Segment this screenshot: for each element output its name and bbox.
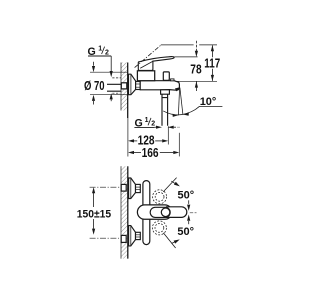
wall face line (top view) (127, 166, 129, 258)
svg-text:2: 2 (151, 121, 155, 128)
leader to top 50deg label (163, 178, 176, 192)
wall hatch band (top view) (121, 166, 128, 258)
dimension 150+-15 (92, 187, 95, 235)
label G 1/2 bottom (135, 117, 156, 129)
svg-text:Ø 70: Ø 70 (84, 79, 105, 93)
phantom knob circle top (50deg swing) (153, 190, 167, 204)
shower outlet nut below body (161, 90, 170, 94)
supply pipe behind wall (107, 84, 121, 91)
svg-text:10°: 10° (200, 96, 217, 108)
svg-text:150±15: 150±15 (77, 208, 111, 220)
lever swing arc arrows at lever tip (188, 200, 190, 204)
svg-text:78: 78 (190, 62, 201, 77)
arrow left toward pipe from right side (168, 126, 174, 129)
extension line x=179.3 (178, 133, 180, 157)
dimension 78 (195, 41, 198, 91)
svg-text:166: 166 (142, 145, 159, 160)
wall back line (top view) (120, 166, 122, 258)
leader to bottom 50deg label (163, 233, 175, 248)
pipe square in wall (121, 83, 127, 89)
escutcheon cone (side view) (129, 74, 136, 95)
dimension dia 70 (90, 62, 128, 105)
extension line x=168.3 (167, 126, 169, 144)
arrowhead at spout tip (175, 87, 180, 91)
escutcheon cone top union (129, 178, 136, 199)
phantom knob circle bottom (50deg swing) (152, 221, 166, 235)
escutcheon base rim bottom union (130, 226, 132, 246)
svg-text:2: 2 (105, 49, 109, 56)
svg-text:50°: 50° (177, 226, 194, 238)
10-degree ray A (spout axis) (178, 88, 179, 116)
dimension 128 (128, 139, 168, 142)
wall hatch band (side view) (121, 63, 128, 111)
arrow right toward pipe (155, 126, 157, 128)
slot hole in capsule (150, 207, 170, 217)
center line top union (90, 186, 121, 188)
lever handle (block + blade one piece) (138, 57, 174, 71)
dashed line at pipe top level (112, 77, 121, 79)
diverter knob (163, 72, 169, 80)
svg-text:117: 117 (204, 56, 220, 71)
extension line top of rest lever y=56.9 (175, 56, 198, 58)
extension line top of raised lever y=44.9 (161, 44, 217, 46)
10-degree ray B (tilted) (180, 88, 183, 115)
escutcheon base rim (side view) (130, 74, 132, 95)
pivot pin circle (161, 208, 170, 217)
dimension 117 (211, 45, 214, 81)
mixer body (side view) (140, 81, 179, 91)
svg-text:1: 1 (98, 46, 102, 53)
arc left arrowhead (172, 114, 178, 117)
up arrow at pipe bottom level (110, 93, 113, 99)
pipe square top union (121, 184, 126, 191)
leader from G1/2 down (110, 56, 112, 71)
label G 1/2 top (88, 46, 110, 58)
center line bottom union (90, 237, 119, 239)
spout pivot ridge (171, 79, 174, 81)
svg-text:50°: 50° (178, 190, 195, 202)
underline G1/2 bottom (134, 126, 154, 128)
shower outlet pipe (162, 94, 168, 126)
wall face extension line down to dims (127, 118, 129, 157)
union nut bottom (136, 232, 141, 239)
arc right arrowhead (183, 112, 189, 116)
cartridge capsule (top view) (137, 205, 172, 219)
phantom lever raised (dash-dot) (135, 45, 161, 67)
lever bar (top view) (167, 207, 187, 218)
escutcheon cone bottom union (129, 226, 136, 246)
cartridge block (137, 71, 154, 81)
underline G1/2 top (88, 55, 111, 57)
escutcheon base rim top union (130, 178, 132, 199)
union nut top (136, 184, 141, 192)
leader and underline of 10-degree label (195, 106, 222, 109)
extension line y=81.3 (175, 80, 217, 82)
lever underside line (140, 61, 153, 68)
wall face line (127, 63, 129, 119)
pipe square bottom union (121, 235, 126, 242)
body capsule (top view) (143, 181, 150, 245)
union nut (side view) (136, 82, 141, 90)
wall back line (120, 63, 122, 111)
10-degree arc (163, 110, 195, 115)
lever center line dashes (190, 212, 197, 214)
svg-text:1: 1 (145, 117, 149, 124)
dimension 166 (128, 151, 179, 154)
